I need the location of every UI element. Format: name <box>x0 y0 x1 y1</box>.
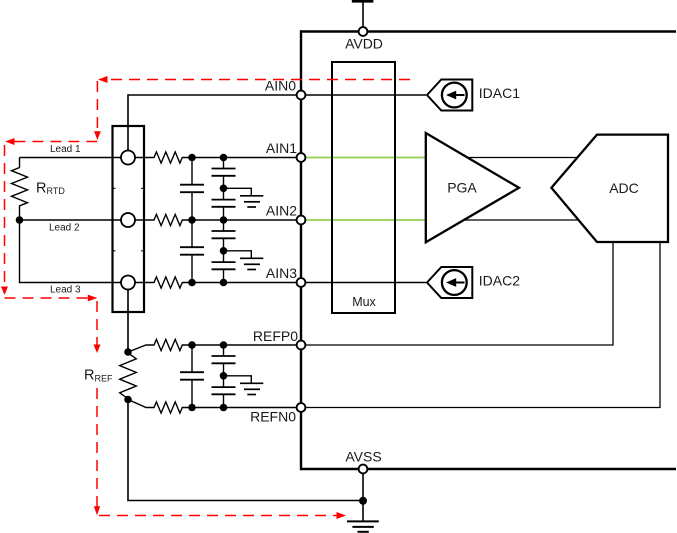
wire R_REF bottom to ground return <box>128 400 363 501</box>
supply AVDD symbol <box>362 2 364 28</box>
chip boundary bottom edge <box>301 468 676 470</box>
wire ADC to REFP0 pin <box>306 243 614 345</box>
terminal lead 2 circle <box>121 213 135 227</box>
current source IDAC2 <box>427 267 472 298</box>
wire/resistor row AIN3: series filter resistor <box>134 277 299 288</box>
wire AIN3 pin to IDAC2 through mux <box>303 282 426 284</box>
current path arrow: down left side (red dashed) <box>4 145 6 287</box>
junction CM midpoint AIN2/AIN3 <box>220 247 228 255</box>
pin AIN3 <box>297 278 306 287</box>
svg-text:REFP0: REFP0 <box>253 328 298 344</box>
terminal block divider ticks <box>113 188 145 251</box>
pin REFP0 <box>297 341 306 350</box>
current path arrow: down past R_REF to ground (red dashed) <box>96 388 98 507</box>
common-mode capacitor pair REFP0/REFN0 with ground <box>212 345 264 408</box>
terminal lead 1 circle <box>121 151 135 165</box>
svg-text:Lead 2: Lead 2 <box>49 222 80 233</box>
wire terminal lead3 down to R_REF <box>127 289 129 352</box>
wire AIN0 pin to terminal block lead 1 <box>128 95 299 152</box>
current source IDAC1 <box>427 80 472 111</box>
wire lead 2 from RTD to terminal <box>20 219 123 221</box>
wire AIN0 pin to IDAC1 through mux <box>303 94 426 96</box>
current path arrow: toward lead 3 (red dashed) <box>5 297 89 299</box>
svg-text:AIN2: AIN2 <box>266 203 297 219</box>
current path arrow: toward RTD (red dashed) <box>13 141 97 143</box>
svg-text:PGA: PGA <box>447 180 477 196</box>
svg-text:ADC: ADC <box>609 180 639 196</box>
resistor R_RTD <box>12 158 28 221</box>
pin AIN1 <box>297 153 306 162</box>
wire PGA output to ADC (lower) <box>450 219 592 221</box>
current path arrow: mux to AIN0 (red dashed) <box>107 79 410 81</box>
svg-text:Mux: Mux <box>352 295 376 309</box>
svg-text:AIN3: AIN3 <box>266 265 297 281</box>
junction R_REF top node <box>124 348 132 356</box>
ADC block <box>551 135 668 242</box>
wire/resistor row AIN2: series filter resistor <box>134 214 299 225</box>
current path arrow: to ground node (red dashed) <box>99 515 337 517</box>
junction CM midpoint AIN1/AIN2 <box>220 185 228 193</box>
svg-text:REFN0: REFN0 <box>250 409 296 425</box>
resistor R_REF <box>120 353 137 400</box>
op-amp PGA (gain block) <box>426 133 519 242</box>
ground (earth) symbol <box>347 521 379 531</box>
svg-text:IDAC1: IDAC1 <box>479 85 520 101</box>
pin AVDD <box>359 27 368 36</box>
common-mode capacitor pair AIN2/AIN3 with ground <box>212 220 264 283</box>
pin AIN0 <box>297 91 306 100</box>
terminal lead 3 circle <box>121 276 135 290</box>
chip boundary (ADS124x) top edge <box>301 30 676 32</box>
wire PGA output to ADC (upper) <box>450 157 592 159</box>
junction CM midpoint REFP0/REFN0 <box>220 372 228 380</box>
svg-text:Lead 1: Lead 1 <box>50 144 81 155</box>
svg-text:AVDD: AVDD <box>345 36 383 52</box>
wire/resistor row AIN1: series filter resistor <box>134 152 299 163</box>
differential capacitor REFP0-REFN0 <box>180 345 204 408</box>
pin AVSS <box>359 465 368 474</box>
junction AVSS/ground return node <box>359 497 367 505</box>
wire lead 1 from RTD to terminal <box>20 157 123 159</box>
wire AVSS to ground <box>362 473 364 521</box>
multiplexer U-Mux box <box>332 62 395 313</box>
svg-text:Lead 3: Lead 3 <box>50 285 81 296</box>
junction R_REF bottom node <box>124 396 132 404</box>
net AIN2 selected-channel routing (green) <box>303 219 427 221</box>
svg-text:AIN1: AIN1 <box>266 140 297 156</box>
common-mode capacitor pair AIN1/AIN2 with ground <box>212 158 264 221</box>
terminal block J1 <box>113 126 145 312</box>
wire ADC to REFN0 pin <box>306 243 661 408</box>
wire RTD bottom to lead 3 <box>20 220 123 283</box>
differential capacitor AIN1-AIN2 <box>180 158 204 221</box>
wire/resistor row REFN0: series filter resistor <box>128 400 299 414</box>
current path arrow: down to lead 1 (red dashed) <box>96 81 98 132</box>
pin REFN0 <box>297 403 306 412</box>
differential capacitor AIN2-AIN3 <box>180 220 204 283</box>
junction dots on filter rows <box>188 154 196 162</box>
pin AIN2 <box>297 216 306 225</box>
current path arrow: down to R_REF (red dashed) <box>96 301 98 345</box>
wire/resistor row REFP0: series filter resistor <box>128 339 299 352</box>
junction RTD bottom node <box>16 216 24 224</box>
svg-text:AVSS: AVSS <box>345 448 381 464</box>
svg-text:IDAC2: IDAC2 <box>479 273 520 289</box>
net AIN1 selected-channel routing (green) <box>303 157 427 159</box>
chip boundary left edge <box>300 30 302 470</box>
